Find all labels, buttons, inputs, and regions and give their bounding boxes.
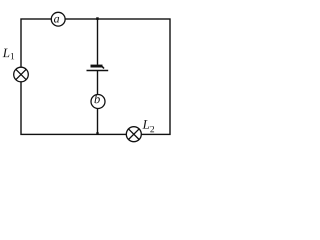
lamp L2 xyxy=(126,127,141,142)
battery cell B1 xyxy=(87,65,109,71)
wire middle branch upper xyxy=(97,19,99,65)
node junction top xyxy=(96,17,99,20)
ammeter b xyxy=(91,92,105,108)
svg-text:L1: L1 xyxy=(2,45,15,62)
svg-text:L2: L2 xyxy=(142,117,155,136)
svg-text:b: b xyxy=(94,92,100,106)
ammeter a xyxy=(51,11,65,26)
node junction bottom xyxy=(96,132,98,134)
lamp L1 xyxy=(14,67,29,82)
wire outer loop xyxy=(21,19,170,134)
svg-text:a: a xyxy=(54,11,60,25)
wire middle branch lower xyxy=(97,71,99,135)
